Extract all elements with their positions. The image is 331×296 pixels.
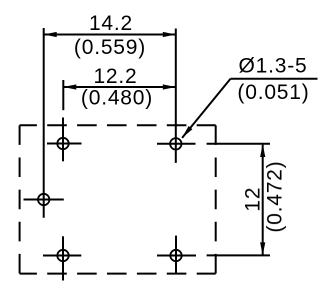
extension line left (14.2) through middle-left hole <box>43 28 45 218</box>
extension line top (12) from hole H2 <box>207 143 270 145</box>
arrowhead bottom of 12 <box>260 242 265 255</box>
hole H1 top-left circle <box>57 138 68 149</box>
svg-text:Ø1.3-5: Ø1.3-5 <box>239 55 308 78</box>
hole H4 crosshair vertical <box>62 236 64 280</box>
extension line right (14.2/12.2) through top-right hole <box>175 29 177 163</box>
hole H2 top-right circle <box>170 138 181 149</box>
hole H5 bottom-right circle <box>170 250 181 261</box>
hole H1 crosshair vertical <box>62 118 64 162</box>
relay outline dashed rectangle right edge <box>215 125 217 273</box>
relay outline dashed rectangle top edge <box>20 124 216 126</box>
hole H3 middle-left circle <box>38 194 49 205</box>
svg-text:12: 12 <box>242 187 265 212</box>
hole H5 crosshair horizontal <box>157 255 196 257</box>
relay outline dashed rectangle left edge <box>19 125 21 273</box>
hole H4 bottom-left circle <box>57 250 68 261</box>
leader line diagonal to hole H2 <box>182 79 230 138</box>
leader arrowhead at hole H2 <box>182 126 193 138</box>
dimension line 14.2 <box>44 34 176 36</box>
svg-text:(0.051): (0.051) <box>237 81 309 104</box>
hole H1 crosshair horizontal <box>47 143 82 145</box>
svg-text:(0.480): (0.480) <box>81 87 153 110</box>
arrowhead right of 14.2 <box>163 32 176 37</box>
hole H2 crosshair horizontal <box>157 143 196 145</box>
svg-text:14.2: 14.2 <box>89 12 133 35</box>
relay outline dashed rectangle bottom edge <box>20 273 216 275</box>
svg-text:12.2: 12.2 <box>93 65 137 88</box>
extension line bottom (12) from hole H5 <box>207 254 270 256</box>
svg-text:(0.559): (0.559) <box>74 36 146 59</box>
hole H4 crosshair horizontal <box>43 255 81 257</box>
hole H3 crosshair horizontal <box>24 199 64 201</box>
hole H5 crosshair vertical <box>175 236 177 274</box>
arrowhead top of 12 <box>260 144 265 157</box>
svg-text:(0.472): (0.472) <box>264 161 287 233</box>
dimension line 12 vertical <box>262 144 264 256</box>
dimension line 12.2 <box>63 86 176 88</box>
arrowhead right of 12.2 <box>163 84 176 89</box>
arrowhead left of 14.2 <box>44 32 57 37</box>
arrowhead left of 12.2 <box>63 84 76 89</box>
leader line horizontal under Ø1.3-5 <box>231 78 318 80</box>
extension line left (12.2) <box>62 80 64 110</box>
